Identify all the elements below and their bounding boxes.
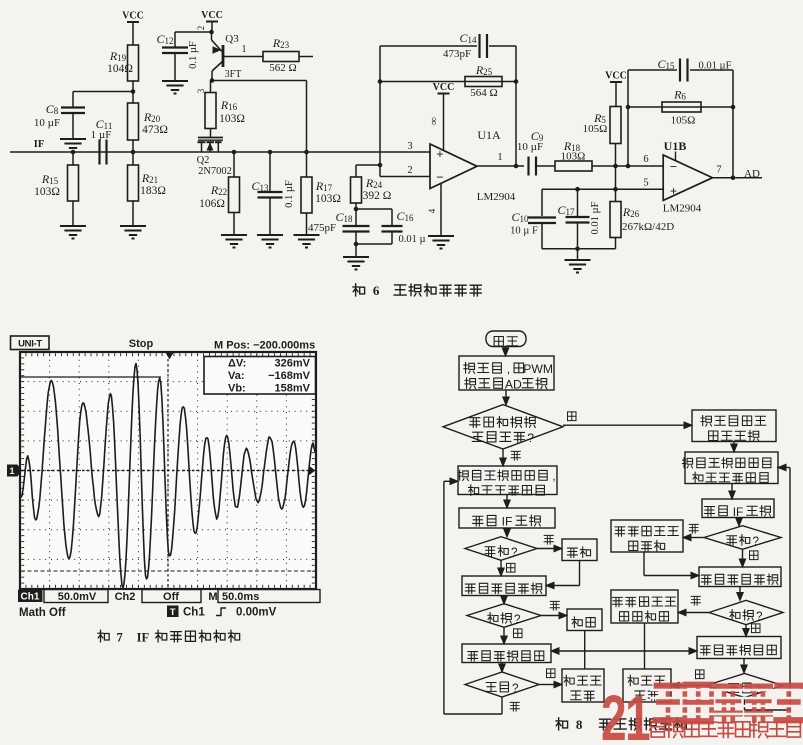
svg-text:UNI-T: UNI-T [18,339,42,350]
svg-text:473Ω: 473Ω [142,124,168,136]
svg-text:U1A: U1A [477,128,501,142]
svg-text:10 µF: 10 µF [517,141,543,153]
svg-text:105Ω: 105Ω [671,115,696,127]
svg-text:C17: C17 [557,203,575,217]
svg-text:R6: R6 [673,88,686,102]
svg-text:C14: C14 [459,31,477,45]
svg-text:LM2904: LM2904 [663,203,702,215]
svg-text:,: , [552,470,555,483]
svg-text:R16: R16 [220,98,238,112]
svg-text:103Ω: 103Ω [561,151,586,163]
svg-text:7: 7 [116,631,122,645]
svg-text:Ch2: Ch2 [115,591,136,603]
svg-text:C13: C13 [251,179,269,193]
svg-text:2N7002: 2N7002 [198,166,232,177]
svg-text:10 µ F: 10 µ F [510,226,538,237]
svg-text:∞: ∞ [428,117,440,125]
svg-text:0.01 µF: 0.01 µF [590,201,601,234]
svg-text:−168mV: −168mV [268,370,311,382]
svg-text:?: ? [514,613,521,626]
svg-text:Ch1: Ch1 [21,592,40,603]
svg-text:104Ω: 104Ω [107,63,133,75]
svg-text:VCC: VCC [433,82,455,93]
svg-text:R21: R21 [141,171,158,185]
svg-text:C10: C10 [511,210,529,224]
svg-text:105Ω: 105Ω [583,123,608,135]
svg-text:C18: C18 [335,210,353,224]
svg-text:U1B: U1B [664,139,687,153]
svg-text:103Ω: 103Ω [219,113,245,125]
svg-text:158mV: 158mV [275,383,311,395]
svg-text:IF: IF [733,505,744,519]
svg-text:562 Ω: 562 Ω [269,62,296,74]
svg-text:VCC: VCC [201,10,223,21]
svg-text:R17: R17 [315,179,333,193]
svg-text:1: 1 [9,466,14,476]
svg-text:?: ? [511,546,518,559]
svg-text:R15: R15 [41,172,59,186]
svg-text:1 µF: 1 µF [91,129,112,141]
svg-text:M Pos: −200.000ms: M Pos: −200.000ms [214,340,315,352]
svg-text:8: 8 [576,717,583,732]
svg-text:−: − [436,170,443,185]
svg-text:21: 21 [601,683,650,740]
svg-text:R20: R20 [143,110,161,124]
svg-text:PWM: PWM [523,362,553,376]
svg-text:0.1 µF: 0.1 µF [188,41,199,69]
svg-text:103Ω: 103Ω [315,193,341,205]
svg-text:2: 2 [196,26,206,31]
svg-text:267kΩ/42D: 267kΩ/42D [622,221,674,233]
svg-text:C8: C8 [46,102,59,116]
svg-text:Ch1: Ch1 [183,607,205,619]
svg-text:R23: R23 [272,36,290,50]
svg-text:AD: AD [744,168,760,180]
svg-text:3FT: 3FT [225,69,242,80]
svg-text:0.00mV: 0.00mV [236,607,277,619]
svg-text:C12: C12 [156,32,173,46]
svg-text:R19: R19 [109,49,127,63]
svg-text:326mV: 326mV [275,358,311,370]
svg-text:Math Off: Math Off [19,607,66,619]
svg-text:?: ? [527,431,534,445]
svg-text:+: + [436,147,443,162]
svg-text:3: 3 [407,141,412,152]
svg-text:1: 1 [242,44,247,55]
svg-text:Va:: Va: [228,370,245,382]
svg-text:AD: AD [505,377,522,391]
svg-text:Q3: Q3 [225,33,239,45]
svg-text:Vb:: Vb: [228,383,246,395]
svg-text:6: 6 [373,283,380,298]
svg-text:?: ? [756,610,763,623]
svg-text:VCC: VCC [605,71,627,82]
svg-text:0.01 µ: 0.01 µ [398,234,425,245]
svg-text:R22: R22 [210,183,227,197]
svg-text:50.0mV: 50.0mV [58,591,97,603]
svg-text:564 Ω: 564 Ω [470,87,497,99]
svg-text:50.0ms: 50.0ms [222,591,259,603]
svg-text:ΔV:: ΔV: [228,358,246,370]
svg-text:C16: C16 [396,209,414,223]
svg-text:C15: C15 [657,57,675,71]
svg-text:5: 5 [643,178,648,189]
svg-text:+: + [670,184,677,199]
svg-text:LM2904: LM2904 [477,191,516,203]
svg-text:7: 7 [716,165,721,176]
svg-text:0.01 µF: 0.01 µF [699,61,732,72]
svg-text:?: ? [753,535,760,548]
svg-text:R26: R26 [622,205,640,219]
svg-text:T: T [170,607,176,618]
svg-text:Stop: Stop [129,338,154,350]
svg-text:0.1 µF: 0.1 µF [284,180,295,208]
svg-text:R25: R25 [475,63,493,77]
svg-text:VCC: VCC [122,11,144,22]
svg-text:475pF: 475pF [308,222,336,234]
svg-text:,: , [776,458,779,471]
svg-text:4: 4 [427,208,437,213]
svg-text:M: M [208,591,217,603]
svg-text:392 Ω: 392 Ω [363,190,392,202]
svg-text:10 µF: 10 µF [34,117,60,129]
svg-text:?: ? [512,682,519,695]
svg-text:Q2: Q2 [197,155,210,166]
svg-text:Off: Off [163,591,179,603]
svg-text:IF: IF [137,631,150,645]
svg-text:IF: IF [34,139,45,150]
svg-text:2: 2 [407,165,412,176]
svg-text:473pF: 473pF [443,48,471,60]
svg-text:6: 6 [643,154,648,165]
svg-text:1: 1 [497,152,502,163]
svg-text:106Ω: 106Ω [199,198,225,210]
svg-text:R24: R24 [365,176,383,190]
svg-text:183Ω: 183Ω [140,185,166,197]
svg-text:103Ω: 103Ω [34,186,60,198]
svg-text:,: , [507,362,510,376]
svg-text:IF: IF [502,515,513,529]
svg-text:−: − [670,159,677,174]
